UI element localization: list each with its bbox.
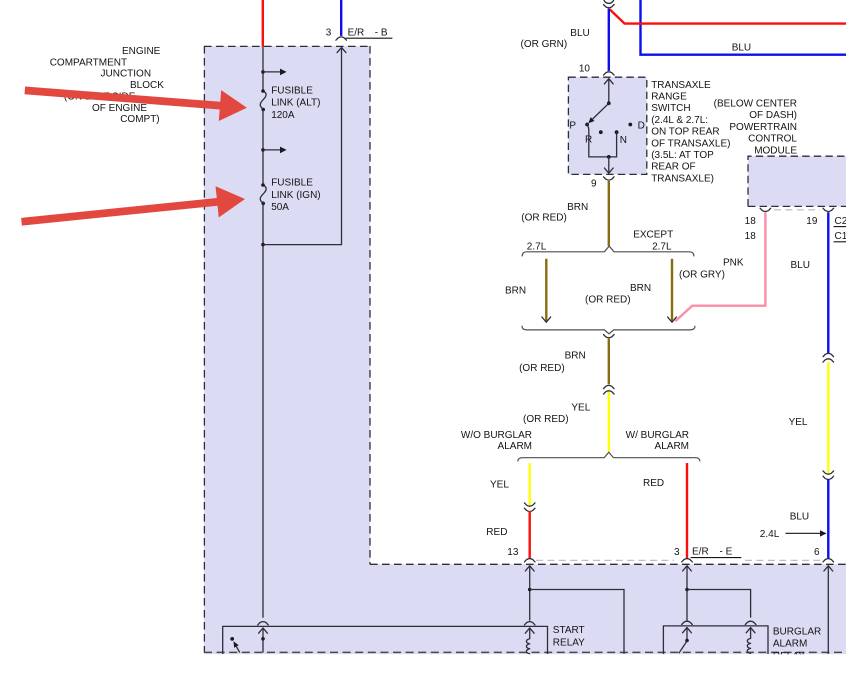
svg-text:OF TRANSAXLE): OF TRANSAXLE) — [651, 138, 730, 149]
node junction circle at top — [604, 0, 614, 3]
fusible link F2 (IGN) 50A — [260, 183, 266, 205]
svg-text:START: START — [553, 625, 585, 636]
svg-text:FUSIBLE: FUSIBLE — [271, 85, 313, 96]
label YEL right — [789, 417, 808, 428]
svg-text:50A: 50A — [271, 202, 289, 213]
svg-text:FUSIBLE: FUSIBLE — [271, 177, 313, 188]
node junction dot pin 3 branch — [685, 588, 689, 592]
svg-text:YEL: YEL — [571, 403, 590, 414]
wire output to pin 9 with down arrow — [604, 157, 613, 174]
contact dot N — [615, 130, 627, 146]
pin 9 label — [591, 179, 597, 190]
pcm bottom dashed border — [748, 205, 846, 207]
connector arch main feed into start relay — [258, 622, 269, 625]
svg-text:(OR GRY): (OR GRY) — [679, 269, 725, 280]
wire blue vertical top to horizontal BLU feed — [641, 0, 846, 55]
wire BRN (OR RED) merged — [608, 339, 610, 385]
arrow up pin 3 wire into burglar relay — [683, 628, 692, 633]
wire into burglar relay coil — [750, 627, 752, 638]
svg-text:3: 3 — [326, 28, 332, 39]
connector arch at pin 13 — [524, 559, 535, 562]
svg-text:BLU: BLU — [790, 511, 809, 522]
start relay switch arm with arrowhead — [234, 641, 240, 652]
burglar relay switch arm — [679, 641, 687, 653]
svg-text:C1: C1 — [835, 231, 846, 242]
svg-text:RED: RED — [486, 527, 507, 538]
label E/R - B — [346, 27, 393, 38]
node start relay switch junction dot — [261, 637, 265, 641]
label EXCEPT 2.7L — [633, 230, 673, 253]
junction block dashed border bottom edge — [204, 651, 846, 653]
svg-text:BLOCK: BLOCK — [130, 80, 164, 91]
label BRN (OR RED) merged — [519, 350, 586, 373]
pin 10 label — [579, 64, 591, 75]
pcm hidden gray dashes between pins 18 and 19 — [774, 209, 820, 211]
connector arch at E/R - B entry — [336, 37, 347, 40]
label PNK (OR GRY) — [679, 257, 744, 280]
connector cup at pcm pin 18 — [760, 208, 771, 211]
label W/O BURGLAR ALARM — [461, 430, 532, 452]
svg-text:18: 18 — [745, 216, 757, 227]
engine compartment junction block lavender region — [204, 46, 846, 654]
label 2.7L left — [527, 241, 547, 252]
wire pin 6 down right side — [827, 565, 829, 654]
svg-text:BRN: BRN — [630, 283, 651, 294]
connector cup at pcm pin 19 — [823, 208, 834, 211]
arrow up into transaxle switch — [604, 79, 613, 84]
node switch pivot dot — [607, 101, 611, 105]
splice connector BLU to YEL right — [823, 353, 834, 362]
svg-text:(3.5L: AT TOP: (3.5L: AT TOP — [651, 150, 714, 161]
svg-text:(BELOW CENTER: (BELOW CENTER — [714, 99, 797, 110]
wire YEL left branch — [529, 463, 531, 506]
arrow up into relay section at pin 13 — [525, 566, 534, 571]
svg-text:C2: C2 — [835, 216, 846, 227]
wire RED to pin 13 — [529, 511, 531, 559]
svg-text:SWITCH: SWITCH — [651, 103, 690, 114]
svg-text:N: N — [620, 135, 627, 146]
label W/ BURGLAR ALARM — [626, 430, 689, 452]
connector arch at pin 3 — [682, 559, 693, 562]
connector cup below junction circle — [604, 5, 615, 8]
connector arch at pin 6 — [823, 559, 834, 562]
svg-text:2.4L: 2.4L — [760, 529, 780, 540]
svg-text:BLU: BLU — [791, 260, 810, 271]
label powertrain control module — [714, 99, 798, 157]
contact dot P — [569, 121, 589, 132]
svg-text:BRN: BRN — [565, 350, 586, 361]
svg-text:RELAY: RELAY — [553, 637, 585, 648]
wire pin 3 to burglar alarm relay — [686, 565, 688, 620]
node junction dot with branch arrow 2 — [261, 147, 286, 154]
connector arch at transaxle pin 10 — [604, 72, 615, 75]
svg-text:BRN: BRN — [567, 202, 588, 213]
powertrain control module dashed border — [748, 156, 846, 206]
start relay switch contact dot — [230, 637, 234, 641]
svg-text:RED: RED — [643, 478, 664, 489]
wire YEL (OR RED) — [608, 392, 610, 452]
contact dot R — [585, 130, 603, 145]
arrow up pin 13 wire into start relay — [525, 628, 534, 633]
wire PNK (OR GRY) from pcm pin 18 — [675, 212, 765, 321]
svg-text:- B: - B — [375, 27, 388, 38]
connector label C1 — [834, 231, 846, 242]
svg-text:13: 13 — [507, 547, 519, 558]
transaxle range switch box fill — [568, 77, 646, 174]
svg-text:9: 9 — [591, 179, 597, 190]
splice connector YEL to BLU right — [823, 471, 834, 480]
start relay coil — [526, 639, 529, 654]
wire main feed inside start relay — [262, 628, 264, 653]
wire BRN (OR RED) branch right except 2.7L — [671, 259, 673, 322]
svg-text:ALARM: ALARM — [773, 639, 807, 650]
red block arrow 1 pointing at fusible link ALT — [25, 87, 247, 122]
svg-text:2.7L: 2.7L — [527, 241, 547, 252]
svg-text:BLU: BLU — [570, 28, 589, 39]
svg-text:D: D — [638, 121, 645, 132]
svg-text:(2.4L & 2.7L:: (2.4L & 2.7L: — [651, 115, 708, 126]
svg-text:RANGE: RANGE — [651, 92, 687, 103]
svg-text:E/R: E/R — [692, 546, 709, 557]
svg-text:3: 3 — [674, 547, 680, 558]
svg-text:19: 19 — [806, 216, 818, 227]
arrow up main feed into start relay — [259, 628, 268, 633]
splice connector BRN to YEL — [604, 385, 615, 394]
wire battery feed red vertical top left — [262, 0, 264, 47]
node junction dot at loop takeoff — [261, 243, 265, 247]
wire main feed down to start relay — [262, 201, 264, 617]
svg-text:P: P — [569, 121, 576, 132]
svg-text:(OR RED): (OR RED) — [523, 414, 569, 425]
powertrain control module box fill — [748, 156, 846, 206]
burglar alarm relay box — [663, 626, 768, 654]
svg-text:REAR OF: REAR OF — [651, 162, 695, 173]
arrowhead at left branch end — [542, 317, 551, 322]
svg-text:MODULE: MODULE — [754, 145, 797, 156]
svg-text:(OR GRN): (OR GRN) — [521, 39, 568, 50]
bracket merge below branches — [522, 326, 695, 334]
svg-text:ALARM: ALARM — [655, 441, 689, 452]
transaxle range switch dashed border — [568, 77, 646, 174]
svg-text:OF ENGINE: OF ENGINE — [92, 103, 147, 114]
svg-text:TRANSAXLE): TRANSAXLE) — [651, 173, 714, 184]
label BURGLAR ALARM RELAY — [773, 626, 821, 662]
svg-text:BRN: BRN — [505, 285, 526, 296]
label 2.4L with arrow — [760, 529, 827, 540]
svg-text:10: 10 — [579, 64, 591, 75]
wire branch from pin 13 junction to right and down — [530, 590, 624, 654]
node output junction dot — [607, 155, 611, 159]
wire pin 13 to start relay — [529, 565, 531, 620]
label transaxle range switch — [651, 80, 730, 185]
bracket split 2.7L / EXCEPT 2.7L — [522, 246, 694, 256]
burglar alarm relay coil — [747, 638, 750, 653]
svg-text:W/O BURGLAR: W/O BURGLAR — [461, 430, 532, 441]
label RED right — [643, 478, 664, 489]
label BLU right — [790, 511, 809, 522]
arrow up into relay section at pin 6 — [824, 566, 833, 571]
svg-text:BLU: BLU — [732, 42, 751, 53]
contact dot D — [628, 121, 644, 132]
wire between fusible links — [262, 110, 264, 186]
label BLU pcm — [791, 260, 810, 271]
svg-text:COMPARTMENT: COMPARTMENT — [50, 57, 127, 68]
label engine compartment junction block — [50, 46, 165, 125]
label START RELAY — [553, 625, 585, 648]
wire switch common to pivot — [608, 78, 610, 103]
fusible link F1 (ALT) 120A — [260, 89, 266, 111]
svg-text:YEL: YEL — [789, 417, 808, 428]
arrowhead at right branch end — [668, 317, 677, 322]
burglar relay switch junction dot — [685, 639, 689, 643]
label RED left — [486, 527, 507, 538]
splice connector YEL to RED — [524, 503, 535, 512]
hidden gray dashed line between E/R - E and pin 6 — [745, 559, 820, 561]
label BRN left branch — [505, 285, 526, 296]
connector arch pin 13 wire into start relay — [524, 622, 535, 625]
wire pin 3 inside burglar relay — [686, 627, 688, 640]
label E/R - E — [691, 546, 742, 557]
pin 18 label row 2 — [745, 231, 757, 242]
wire loop from fusible links to E/R - B output — [263, 47, 342, 244]
junction block dashed border left edge — [203, 46, 205, 653]
svg-text:E/R: E/R — [348, 27, 365, 38]
svg-text:W/ BURGLAR: W/ BURGLAR — [626, 430, 689, 441]
connector cup below merge bracket — [604, 335, 615, 338]
label YEL (OR RED) — [523, 403, 591, 425]
wire RED right branch to pin 3 — [686, 463, 688, 559]
svg-text:(OR RED): (OR RED) — [519, 363, 565, 374]
junction block dashed border top edge — [204, 45, 370, 47]
bracket split w/o burglar alarm / w burglar alarm — [518, 452, 700, 461]
connector arch pin 3 wire into burglar relay — [682, 621, 693, 624]
wire branch from pin 3 junction to burglar relay coil — [687, 590, 751, 618]
pin 3 label top — [326, 28, 332, 39]
svg-text:2.7L: 2.7L — [652, 241, 672, 252]
wire YEL right side chain — [827, 362, 829, 474]
svg-text:BURGLAR: BURGLAR — [773, 626, 821, 637]
wire BLU to pin 6 — [827, 479, 829, 559]
wire blue E/R - B drop at top of junction block — [340, 0, 342, 36]
label BRN (OR RED) pin 9 — [521, 202, 588, 223]
svg-text:ENGINE: ENGINE — [122, 46, 161, 57]
svg-text:COMPT): COMPT) — [120, 114, 159, 125]
label FUSIBLE LINK (IGN) 50A — [271, 177, 320, 213]
white strip below diagram — [0, 654, 846, 675]
label YEL left branch — [490, 479, 509, 490]
start relay box — [223, 626, 548, 654]
node junction dot with branch arrow 1 — [261, 69, 286, 76]
node junction dot pin 13 branch — [528, 588, 532, 592]
svg-text:- E: - E — [720, 546, 733, 557]
hidden gray dashed line between pins 13 and 3 — [536, 559, 674, 561]
svg-text:CONTROL: CONTROL — [748, 134, 797, 145]
arrow up into relay section at pin 3 — [683, 566, 692, 571]
label BLU horizontal feed — [732, 42, 751, 53]
switch lever with arrowhead toward P — [588, 103, 609, 123]
svg-text:OF DASH): OF DASH) — [749, 110, 797, 121]
pin 18 label row 1 — [745, 216, 757, 227]
svg-text:JUNCTION: JUNCTION — [101, 69, 152, 80]
svg-text:LINK (IGN): LINK (IGN) — [271, 190, 320, 201]
wire switch output U path P to N — [587, 125, 617, 157]
svg-text:ALARM: ALARM — [498, 441, 532, 452]
svg-text:LINK (ALT): LINK (ALT) — [271, 98, 320, 109]
junction block dashed border right edge of tall section — [369, 46, 371, 565]
svg-text:120A: 120A — [271, 110, 295, 121]
red block arrow 2 pointing at fusible link IGN — [21, 186, 245, 225]
label BLU (OR GRN) — [521, 28, 590, 50]
wire BRN branch left 2.7L — [545, 259, 547, 322]
pin 6 label — [814, 547, 820, 558]
svg-text:6: 6 — [814, 547, 820, 558]
label BRN (OR RED) right branch — [585, 283, 651, 306]
svg-text:18: 18 — [745, 231, 757, 242]
svg-text:(OR RED): (OR RED) — [585, 294, 631, 305]
wire BLU (OR GRN) vertical to transaxle switch pin 10 — [608, 9, 610, 71]
wire BRN (OR RED) from pin 9 — [608, 181, 610, 246]
arrow up coil wire into burglar relay — [746, 628, 755, 633]
svg-text:ON TOP REAR: ON TOP REAR — [651, 127, 719, 138]
pin 13 label — [507, 547, 519, 558]
pin 3 label bottom — [674, 547, 680, 558]
svg-text:PNK: PNK — [723, 257, 744, 268]
arrow up at E/R - B output — [337, 47, 346, 52]
connector arch coil wire into burglar relay — [745, 621, 756, 624]
wire main feed inside junction block — [262, 47, 264, 92]
wire red diagonal from junction circle — [610, 9, 846, 23]
svg-text:EXCEPT: EXCEPT — [633, 230, 673, 241]
label FUSIBLE LINK (ALT) 120A — [271, 85, 320, 121]
wire BLU from pcm pin 19 — [827, 212, 829, 353]
connector label C2 — [834, 216, 846, 227]
junction block dashed boundary horizontal at relay section top — [370, 563, 846, 565]
wire into start relay coil — [529, 628, 531, 639]
connector cup at transaxle pin 9 — [604, 177, 615, 180]
svg-text:TRANSAXLE: TRANSAXLE — [651, 80, 711, 91]
svg-text:YEL: YEL — [490, 479, 509, 490]
svg-text:POWERTRAIN: POWERTRAIN — [729, 122, 797, 133]
pin 19 label — [806, 216, 818, 227]
svg-text:(OR RED): (OR RED) — [521, 212, 567, 223]
